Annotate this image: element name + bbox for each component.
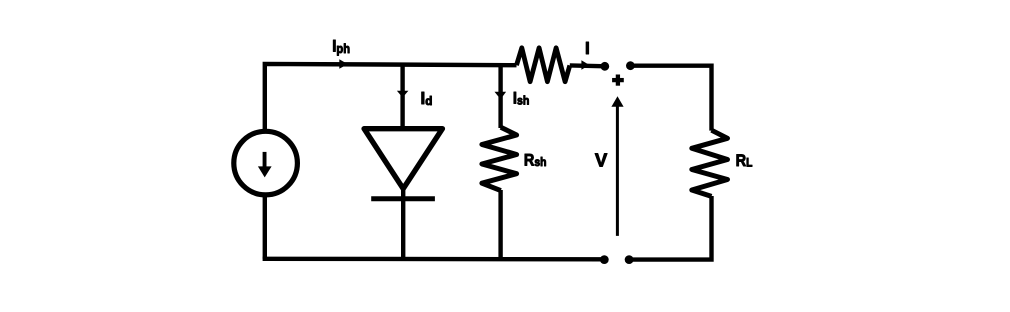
label Iph [332, 37, 350, 56]
label Id [421, 88, 433, 108]
resistor RL (zigzag) [692, 130, 728, 196]
svg-text:Id: Id [421, 88, 433, 108]
wire: load branch top (load dot to RL) [630, 66, 711, 131]
node: positive terminal dot (circuit side) [600, 62, 609, 71]
arrowhead Ish (down) [495, 92, 507, 100]
arrowhead Iph on top rail [339, 59, 348, 68]
label Rsh [524, 151, 547, 169]
wire: load branch bottom (RL to bottom rail) [629, 196, 711, 260]
voltage arrow V (head, up) [611, 96, 623, 107]
wire: top rail from Rs to positive terminal dot [570, 63, 602, 68]
current source arrow (down) [258, 152, 272, 178]
node: positive terminal dot (load side) [626, 61, 635, 70]
svg-text:Ish: Ish [513, 89, 530, 107]
diode D cathode bar [371, 196, 435, 201]
svg-text:Rsh: Rsh [524, 151, 547, 169]
arrowhead Id (down) [397, 91, 409, 98]
resistor Rsh (zigzag) [482, 127, 517, 190]
wire: diode branch bottom (cathode to bottom rail) [401, 188, 405, 259]
wire: diode branch top (top rail to diode anode) [400, 64, 404, 129]
plus sign (positive terminal polarity) [612, 75, 624, 86]
label V [595, 149, 608, 170]
wire: left branch bottom (current source to bottom rail) [263, 196, 267, 259]
resistor Rs series (zigzag on top rail) [517, 48, 570, 82]
node: negative terminal dot (load side) [625, 255, 634, 264]
diode D (triangle) [364, 129, 442, 189]
label Ish [513, 89, 530, 107]
wire: Rsh branch bottom (Rsh to bottom rail) [498, 190, 502, 259]
svg-text:V: V [595, 149, 608, 170]
svg-text:Iph: Iph [332, 37, 350, 56]
arrowhead I (right) [581, 60, 589, 70]
wire: Rsh branch top (top rail to Rsh) [498, 65, 502, 128]
wire: left branch and top rail (corner at top-left) [265, 64, 517, 131]
svg-text:RL: RL [736, 152, 753, 170]
label I [585, 39, 590, 58]
current source (circle) [234, 131, 298, 195]
node: negative terminal dot (circuit side) [600, 255, 609, 264]
voltage arrow V (shaft) [616, 106, 619, 236]
svg-text:I: I [585, 39, 590, 58]
wire: bottom rail [263, 257, 605, 262]
label RL [736, 152, 753, 170]
